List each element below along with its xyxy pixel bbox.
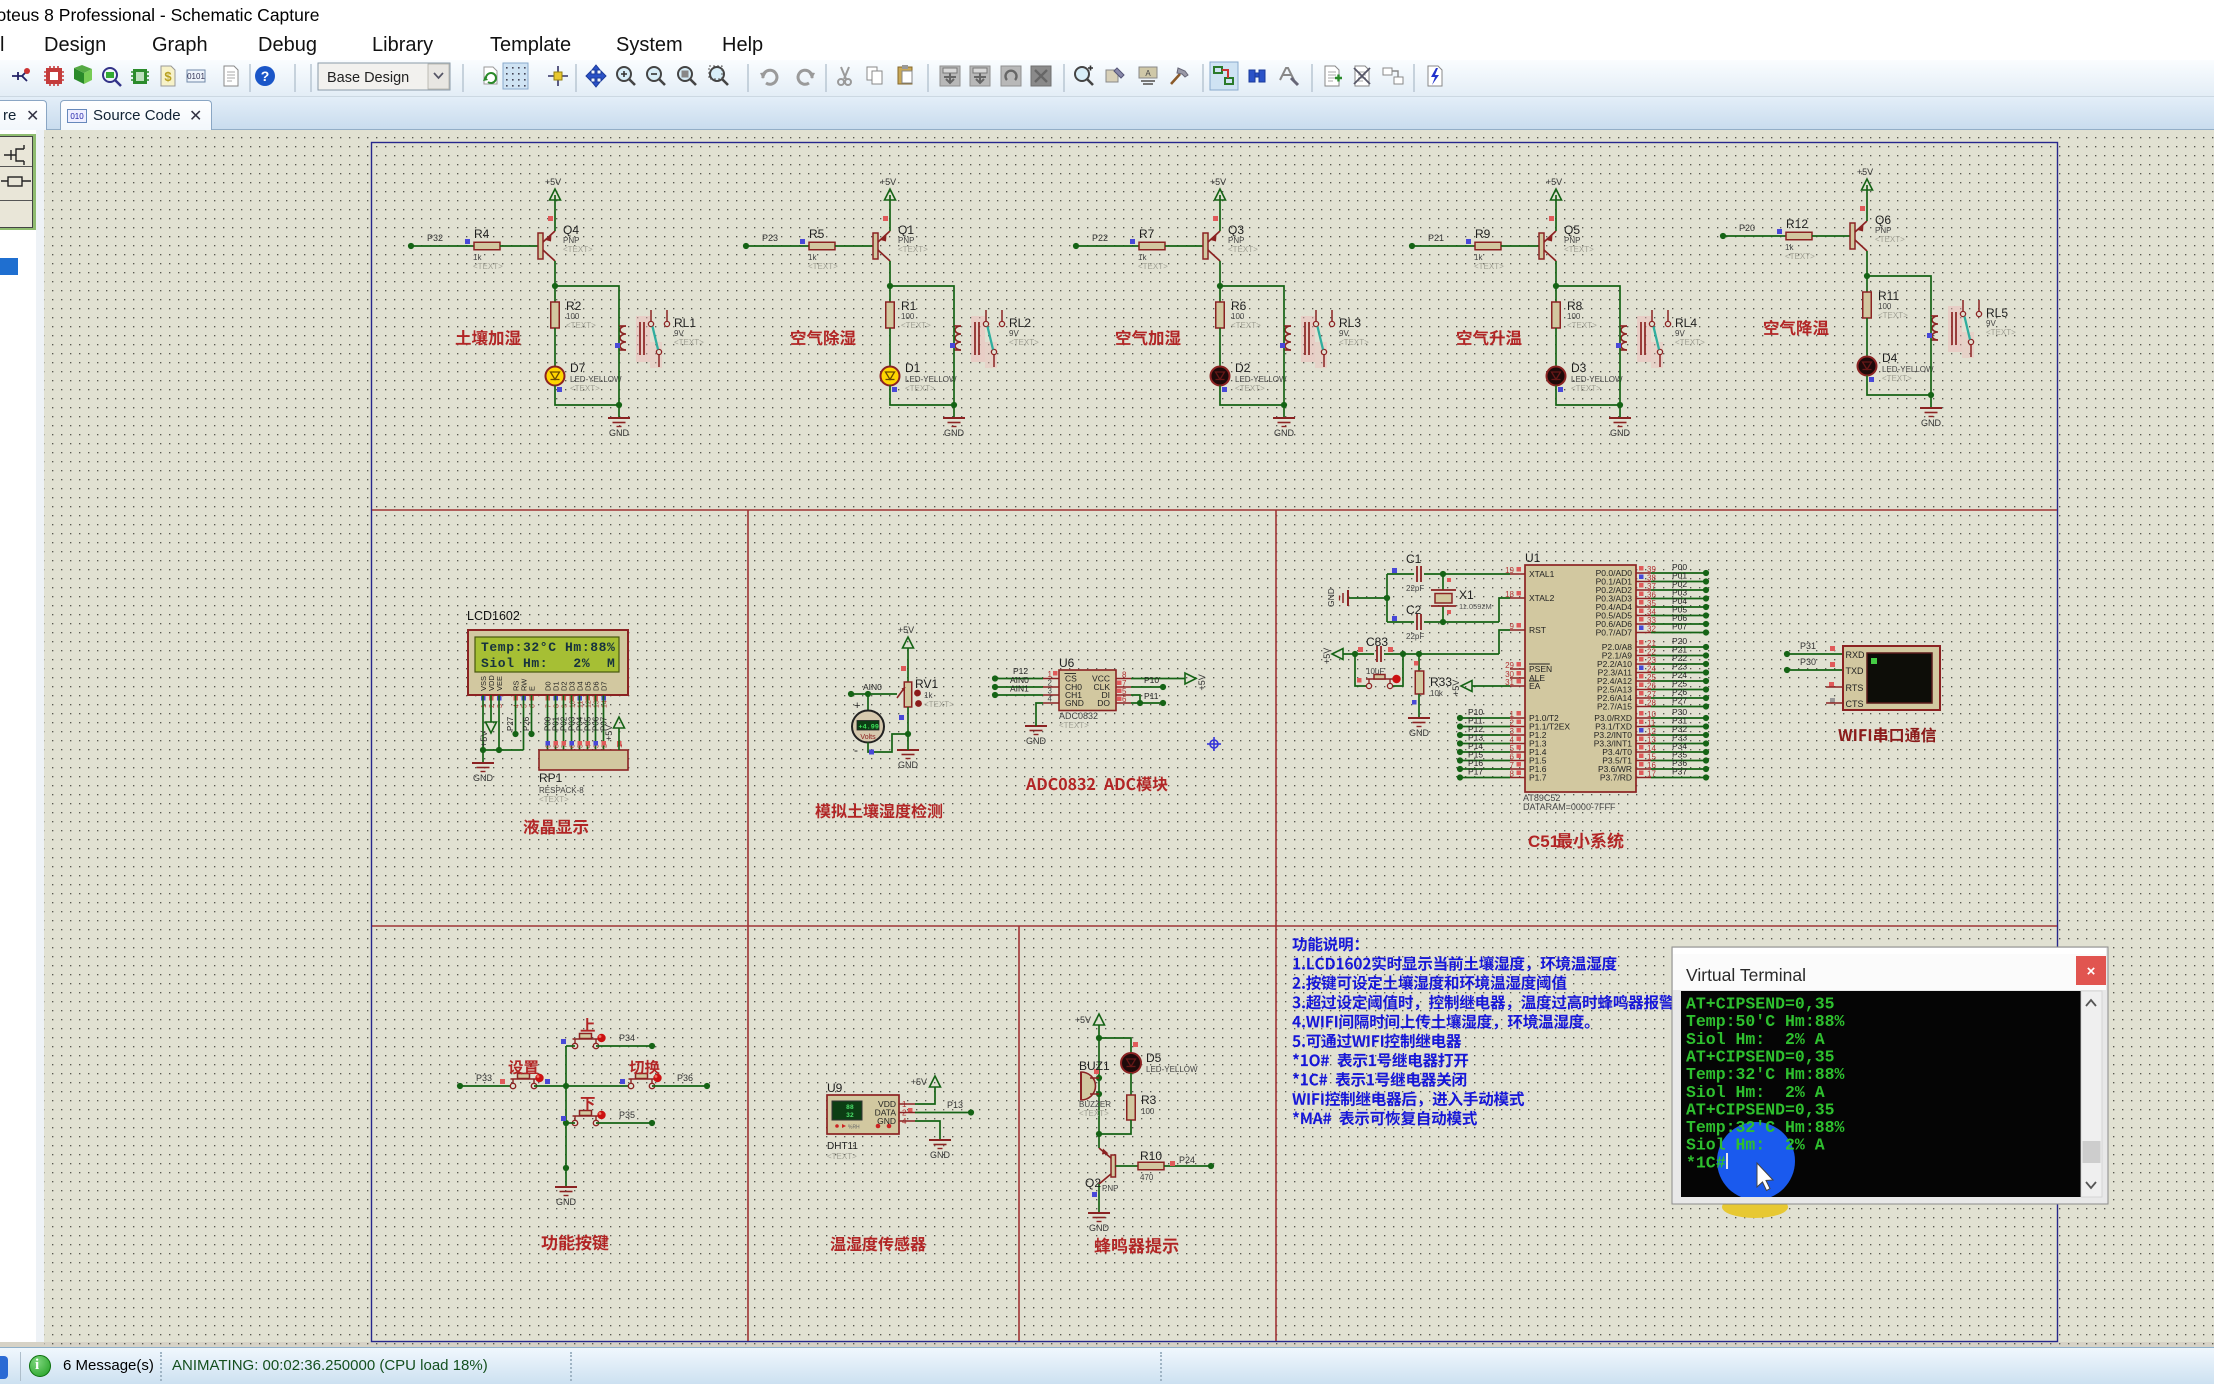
svg-text:0101: 0101 [187,72,205,81]
svg-text:?: ? [261,68,270,84]
svg-text:A: A [1145,69,1151,78]
svg-text:$: $ [164,69,172,84]
svg-text:Base Design: Base Design [327,70,409,86]
